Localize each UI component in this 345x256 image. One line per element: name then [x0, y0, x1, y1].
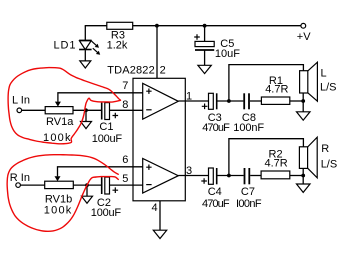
label C5	[215, 38, 240, 60]
wire top supply rail	[85, 25, 301, 27]
svg-text:6: 6	[122, 154, 128, 166]
svg-text:C7: C7	[241, 186, 255, 198]
IC box TDA2822 U1	[133, 78, 185, 201]
ground node L	[81, 122, 92, 129]
label R In	[10, 172, 30, 184]
pin 4 label	[152, 202, 158, 214]
wire speaker R feed	[229, 139, 304, 176]
svg-text:I00nF: I00nF	[236, 198, 262, 210]
svg-text:L/S: L/S	[321, 158, 338, 170]
wire L In to RV1a	[22, 109, 46, 111]
node junction C4 C7	[227, 174, 231, 178]
svg-text:2: 2	[160, 64, 166, 76]
svg-text:+V: +V	[297, 31, 311, 43]
svg-text:C1: C1	[99, 121, 113, 133]
wire ground stem node R	[86, 185, 88, 196]
capacitor C7	[244, 168, 251, 184]
svg-text:4: 4	[152, 202, 158, 214]
svg-text:L In: L In	[12, 95, 30, 107]
svg-text:LD1: LD1	[54, 40, 76, 52]
wire RV1a to C1	[73, 109, 101, 111]
label L In	[12, 95, 30, 107]
svg-text:R: R	[321, 143, 329, 155]
wire RV1a wiper to pin 7	[58, 93, 143, 102]
pin 8 label	[122, 99, 128, 111]
wire pin 4 ground stem	[159, 201, 161, 230]
node junction C3 C8	[227, 99, 231, 103]
svg-text:8: 8	[122, 99, 128, 111]
pin 1 label	[186, 90, 192, 102]
wire R2 to speaker R node	[290, 175, 303, 177]
wire RV1b to C2	[73, 184, 101, 186]
ground pin 4	[153, 230, 166, 238]
label speaker L	[320, 68, 337, 94]
svg-text:C4: C4	[208, 186, 222, 198]
wire C5 bottom lead	[204, 50, 206, 65]
wire pin 1 output	[178, 100, 208, 102]
wire C3 to C8	[217, 100, 243, 102]
label RV1b	[44, 193, 72, 216]
capacitor C3	[202, 93, 218, 109]
red annotation loop around RV1a	[8, 68, 120, 144]
ground under LED	[80, 61, 91, 68]
resistor R1	[261, 97, 289, 104]
capacitor C4	[201, 168, 217, 184]
pin 6 label	[122, 154, 128, 166]
speaker L	[300, 62, 318, 101]
svg-text:1.2k: 1.2k	[107, 39, 128, 51]
capacitor C8	[243, 93, 250, 109]
op-amp U1a	[143, 83, 179, 119]
node junction speaker R	[301, 174, 305, 178]
red annotation loop around RV1b	[7, 155, 118, 232]
svg-text:470uF: 470uF	[202, 198, 230, 210]
label C2	[91, 197, 122, 219]
label C1	[92, 121, 123, 145]
svg-text:100k: 100k	[44, 205, 72, 217]
svg-text:7: 7	[122, 80, 128, 92]
pin 5 label	[122, 173, 128, 185]
pin 7 label	[122, 80, 128, 92]
wire C4 to C7	[217, 175, 243, 177]
label speaker R	[321, 143, 338, 170]
ground node R	[82, 196, 93, 203]
svg-text:R In: R In	[10, 172, 30, 184]
label R3	[107, 29, 128, 51]
svg-text:470uF: 470uF	[202, 122, 230, 134]
svg-text:5: 5	[122, 173, 128, 185]
resistor R2	[261, 171, 290, 179]
wire R In to RV1b	[21, 184, 45, 186]
label LD1	[54, 40, 76, 52]
potentiometer RV1a	[45, 102, 73, 114]
op-amp U1b	[143, 158, 179, 193]
svg-text:4.7R: 4.7R	[265, 157, 288, 169]
ground speaker R	[297, 184, 311, 192]
label C4	[202, 186, 230, 210]
wire C5 top lead	[204, 26, 206, 42]
label R2	[265, 148, 288, 169]
label C3	[202, 112, 230, 134]
pin 3 label	[186, 165, 192, 177]
wire RV1b wiper to pin 6	[58, 167, 143, 177]
svg-text:4.7R: 4.7R	[265, 84, 288, 96]
svg-text:100uF: 100uF	[92, 133, 123, 145]
terminal R In	[16, 183, 21, 188]
potentiometer RV1b	[45, 176, 74, 188]
label TDA2822	[107, 64, 155, 76]
svg-text:100uF: 100uF	[91, 207, 122, 219]
speaker R	[299, 137, 317, 178]
wire R1 to speaker L node	[290, 100, 303, 102]
wire C2 to pin 5	[110, 184, 143, 186]
terminal L In	[17, 108, 22, 113]
node junction top rail C5	[203, 24, 207, 28]
capacitor C5	[194, 34, 214, 50]
pin 2 label	[160, 64, 166, 76]
terminal +V	[301, 23, 306, 28]
wire LED top lead	[84, 26, 86, 41]
wire C7 to R2	[250, 175, 261, 177]
node junction RV1a ground	[84, 108, 88, 112]
node junction top rail pin2	[155, 24, 159, 28]
svg-text:RV1b: RV1b	[45, 193, 72, 205]
resistor R3	[107, 22, 133, 29]
capacitor C1	[101, 103, 118, 120]
wire speaker L feed	[229, 65, 304, 101]
node junction RV1b ground	[85, 183, 89, 187]
wire C8 to R1	[250, 100, 261, 102]
LED LD1	[79, 40, 100, 61]
label R1	[265, 75, 288, 96]
svg-text:TDA2822: TDA2822	[107, 64, 155, 76]
ground speaker L	[297, 112, 311, 120]
ground under C5	[198, 65, 211, 73]
svg-text:100nF: 100nF	[233, 122, 264, 134]
wire speaker L bottom to ground	[302, 93, 304, 112]
wire pin2 supply drop	[156, 26, 158, 79]
wire speaker R bottom to ground	[302, 168, 304, 184]
label C7	[236, 186, 262, 210]
label +V	[297, 31, 311, 43]
svg-text:3: 3	[186, 165, 192, 177]
capacitor C2	[101, 177, 118, 194]
svg-text:L/S: L/S	[320, 82, 337, 94]
svg-text:RV1a: RV1a	[46, 116, 74, 128]
label C8	[233, 112, 264, 134]
wire pin 3 output	[178, 175, 208, 177]
svg-text:1: 1	[186, 90, 192, 102]
svg-text:10uF: 10uF	[215, 48, 240, 60]
wire C1 to pin 8	[110, 109, 143, 111]
svg-text:L: L	[321, 68, 327, 80]
node junction speaker L	[301, 99, 305, 103]
label RV1a	[43, 116, 74, 144]
wire ground stem node L	[85, 110, 87, 121]
